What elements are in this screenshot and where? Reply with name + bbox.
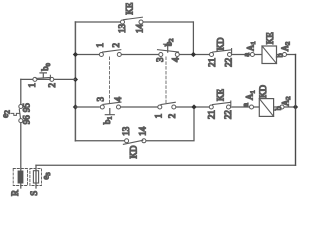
svg-text:KE: KE	[216, 89, 226, 101]
mechanical link b2 (dashed)	[165, 57, 167, 104]
wire b0 branch	[21, 78, 76, 80]
svg-text:2: 2	[47, 83, 57, 88]
svg-text:14: 14	[138, 126, 148, 136]
svg-text:96: 96	[22, 115, 32, 125]
svg-text:1: 1	[95, 43, 105, 48]
svg-text:22: 22	[224, 58, 234, 67]
wire bottom return	[36, 164, 296, 166]
contact b2 pole 3-4 (rung1, NC) with actuator	[158, 44, 180, 56]
contact e2 95-96 (thermal overload NC)	[11, 105, 23, 123]
svg-text:13: 13	[121, 126, 131, 136]
contact b1 pole 3-4 (rung2, NC) with actuator	[100, 102, 121, 115]
node a / terminal A1 of KE coil	[250, 53, 254, 57]
node b / terminal A2 of KD coil	[280, 105, 284, 109]
wire rung2	[75, 106, 295, 108]
node junction left bus / rung2	[73, 104, 78, 109]
contact b0 (stop pushbutton NC)	[33, 73, 54, 82]
wire top bypass drop to rung1	[192, 22, 194, 55]
contact KE 13-14 (NO seal-in of KE)	[121, 17, 144, 24]
svg-text:95: 95	[22, 103, 32, 113]
node junction right bus / rung2	[293, 104, 298, 109]
svg-text:b: b	[274, 53, 284, 57]
contact b1 pole 1-2 (rung1, NO)	[99, 50, 121, 57]
svg-text:22: 22	[223, 110, 233, 119]
svg-text:A2: A2	[280, 42, 292, 52]
coil KE	[262, 46, 277, 64]
svg-text:21: 21	[207, 58, 217, 67]
svg-text:e3: e3	[40, 172, 52, 179]
svg-text:14: 14	[135, 24, 145, 34]
wire rung1	[75, 54, 295, 56]
contact KD 21-22 (NC interlock in rung1)	[210, 49, 232, 57]
contact KD 13-14 (NO seal-in of KD)	[123, 139, 145, 145]
wire right bus	[295, 55, 297, 166]
wire e2 vertical drop	[20, 79, 22, 188]
svg-text:R: R	[10, 190, 20, 196]
svg-text:a: a	[240, 103, 250, 107]
svg-text:KD: KD	[128, 145, 138, 158]
svg-text:b1: b1	[102, 117, 114, 125]
svg-text:2: 2	[111, 43, 121, 48]
contact b2 pole 1-2 (rung2, NO)	[158, 102, 176, 109]
mechanical link b1 (dashed)	[109, 57, 111, 104]
node junction left bus / b0 branch	[73, 77, 78, 82]
svg-text:S: S	[29, 191, 39, 196]
contact KE 21-22 (NC interlock in rung2)	[209, 101, 231, 109]
svg-text:KE: KE	[125, 2, 135, 14]
fuse e3 (phase S)	[30, 169, 42, 186]
svg-text:3: 3	[155, 57, 165, 62]
svg-text:KE: KE	[265, 32, 275, 44]
wire lower bypass	[75, 109, 194, 141]
svg-text:13: 13	[117, 24, 127, 34]
wire top bypass horizontal	[75, 21, 193, 23]
svg-text:b0: b0	[40, 63, 52, 71]
node junction rung1/top bypass	[191, 52, 196, 57]
svg-text:A1: A1	[245, 90, 257, 100]
wire S fuse drop	[35, 165, 37, 188]
node junction rung2 / lower bypass	[191, 104, 196, 109]
node junction left bus / rung1	[73, 52, 78, 57]
svg-text:A1: A1	[246, 41, 258, 51]
svg-text:a: a	[241, 53, 251, 57]
svg-text:3: 3	[96, 97, 106, 102]
node b / terminal A2 of KE coil	[283, 53, 287, 57]
svg-text:2: 2	[167, 114, 177, 119]
svg-text:21: 21	[207, 110, 217, 119]
coil KD	[259, 99, 273, 117]
node a / terminal A1 of KD coil	[250, 105, 254, 109]
terminal R (phase R)	[13, 169, 27, 186]
svg-text:4: 4	[170, 57, 180, 62]
svg-text:1: 1	[27, 83, 37, 88]
svg-text:4: 4	[113, 97, 123, 102]
wire left bus vertical	[74, 22, 76, 141]
svg-text:A2: A2	[280, 96, 292, 106]
svg-text:KD: KD	[216, 37, 226, 50]
svg-text:1: 1	[153, 114, 163, 119]
svg-text:e2: e2	[0, 110, 12, 118]
svg-text:KD: KD	[258, 85, 268, 98]
svg-text:b2: b2	[164, 39, 176, 47]
